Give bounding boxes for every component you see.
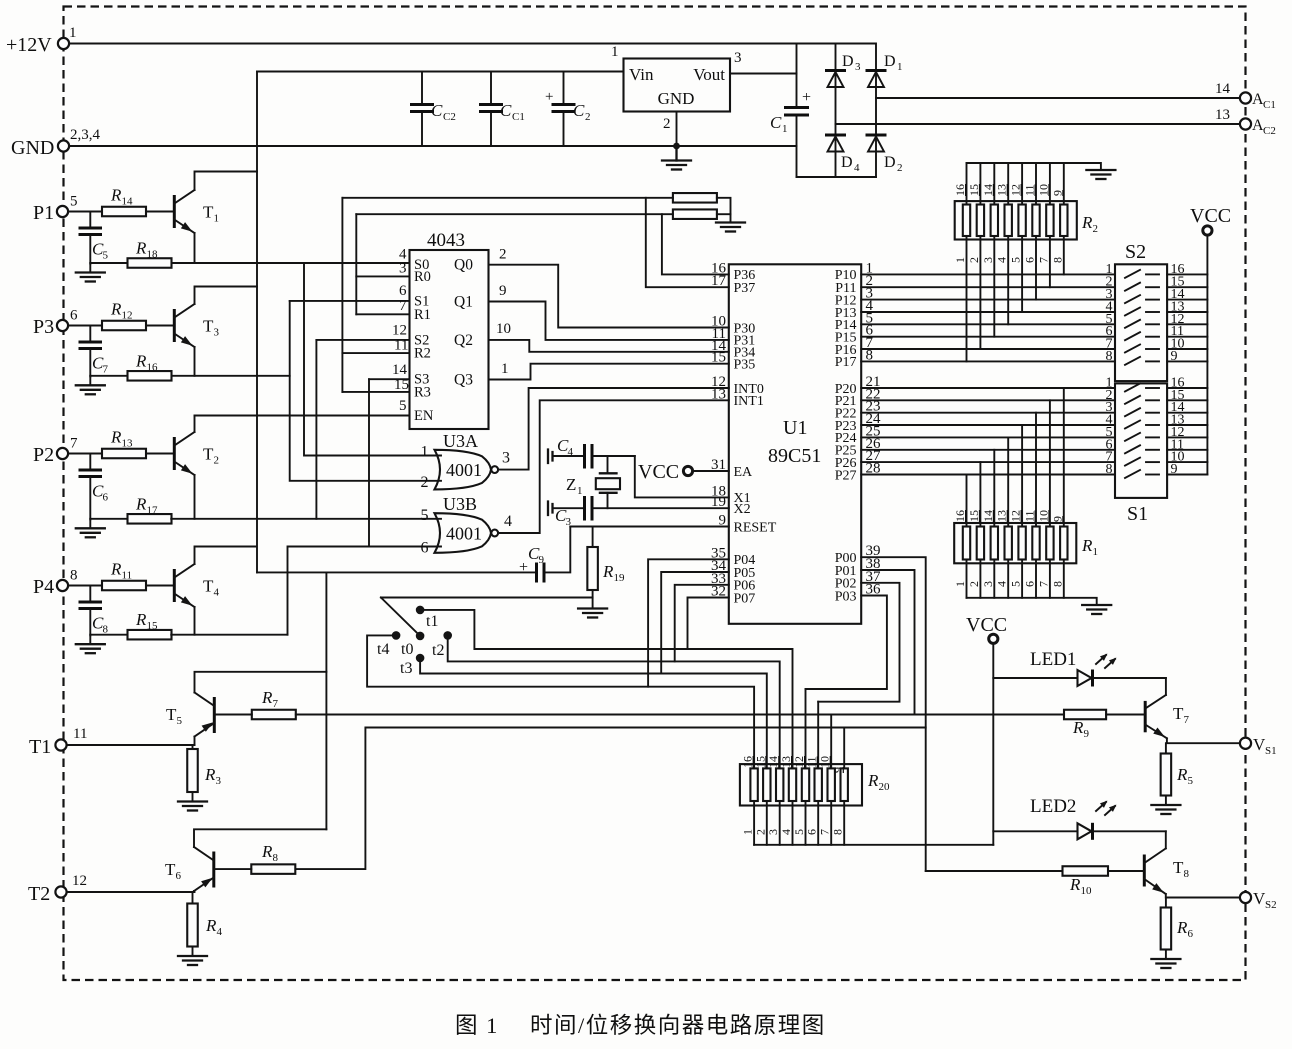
wire U1 port row [861,461,1115,463]
svg-text:6: 6 [1023,257,1037,263]
svg-text:R: R [110,560,122,579]
terminal P2 pin 7 [57,448,68,459]
wire U1 port row [861,323,1115,325]
capacitor Cc2 [410,72,456,147]
resistor R20 element 2 [763,768,770,801]
svg-text:8: 8 [1050,581,1064,587]
svg-text:8: 8 [1184,868,1190,880]
resistor R20 element 3 [776,768,783,801]
svg-text:R: R [135,239,147,258]
svg-text:2: 2 [663,116,671,132]
svg-text:8: 8 [103,624,109,636]
svg-text:Vin: Vin [629,65,654,84]
wire P3 input [68,325,102,327]
svg-text:D: D [842,53,854,70]
svg-text:4: 4 [568,446,574,458]
svg-text:T: T [165,860,176,879]
resistor R1 element 3 [991,527,998,560]
svg-text:EN: EN [414,408,434,424]
svg-text:t4: t4 [377,641,389,658]
svg-text:U3B: U3B [443,494,477,514]
svg-text:7: 7 [399,298,407,314]
wire C4 to X1 [635,456,729,497]
wire T7 collector [1165,678,1167,695]
resistor R2 element 4 [1005,205,1012,237]
svg-text:P4: P4 [33,576,54,598]
svg-text:R: R [1081,536,1093,555]
svg-text:R: R [602,562,614,581]
terminal Vs1 [1240,738,1251,749]
ground [89,263,91,272]
wire base line T5-T7 (long) [296,714,1064,716]
wire in6 line (P4 emitter) [171,634,287,636]
svg-text:9: 9 [539,554,545,566]
wire X2 line [594,507,729,509]
svg-text:R: R [867,771,879,790]
svg-text:11: 11 [122,570,133,582]
resistor R10 [1063,866,1109,876]
svg-text:5: 5 [1188,775,1194,787]
svg-text:3: 3 [216,775,222,787]
resistor R19 [592,527,594,548]
wire GND rail [69,145,797,147]
svg-text:3: 3 [981,581,995,587]
svg-text:5: 5 [1009,257,1023,263]
wire base [146,453,173,455]
resistor R20 element 4 [789,768,796,801]
svg-text:19: 19 [614,572,626,584]
resistor R20 element 5 [802,768,809,801]
svg-text:GND: GND [11,137,54,159]
resistor network R2 [955,201,1077,239]
wire U3B output to INT1 [498,400,729,533]
capacitor C6 [89,454,91,469]
wire P04 [648,559,729,686]
IC 4043 latch [410,250,489,429]
wire collector [195,547,257,565]
svg-text:10: 10 [818,756,832,768]
ground [1086,170,1115,179]
svg-text:R: R [110,428,122,447]
svg-text:15: 15 [967,184,981,196]
svg-text:6: 6 [805,829,819,835]
svg-text:4: 4 [217,926,223,938]
svg-text:4043: 4043 [427,230,465,251]
resistor R20 element 7 [828,768,835,801]
wire t2 to R20 r3 [448,635,780,768]
svg-text:1: 1 [953,257,967,263]
svg-text:16: 16 [147,361,159,373]
svg-text:2: 2 [585,111,591,123]
svg-text:R: R [135,494,147,513]
svg-text:8: 8 [1106,349,1113,364]
wire S3 node to U3B in6 [369,378,410,380]
svg-text:P35: P35 [734,358,756,373]
svg-text:14: 14 [981,510,995,522]
wire collector [195,172,258,191]
resistor R2 element 6 [1032,205,1039,237]
resistor R7 [252,710,296,720]
switch t0 wiper [381,598,420,636]
svg-text:Q0: Q0 [454,257,473,274]
svg-text:31: 31 [711,457,726,473]
svg-text:R0: R0 [414,269,431,285]
svg-text:6: 6 [399,283,407,299]
svg-text:16: 16 [953,184,967,196]
wire regulator pin2 to ground [676,112,678,147]
svg-text:VCC: VCC [1190,205,1231,227]
svg-text:C2: C2 [1263,125,1276,137]
diode D1 [866,53,903,87]
node t0 [416,632,425,641]
wire U1 port row [861,273,1115,275]
svg-text:P03: P03 [835,589,857,604]
wire to R16 [90,375,127,377]
svg-text:1: 1 [953,581,967,587]
svg-text:8: 8 [831,829,845,835]
resistor R15 [128,630,172,640]
LED LED1 [993,649,1166,687]
wire base [146,325,173,327]
svg-text:19: 19 [711,494,726,510]
svg-text:C: C [573,101,585,120]
wire T6 emitter [193,891,195,892]
transistor T3 [174,304,219,347]
svg-text:S1: S1 [1265,745,1277,757]
svg-text:15: 15 [753,756,767,768]
terminal +12V pin 1 [58,38,69,49]
svg-text:6: 6 [176,870,182,882]
svg-text:RESET: RESET [734,520,777,535]
terminal T1 pin 11 [55,739,66,750]
svg-text:5: 5 [1009,581,1023,587]
svg-text:1: 1 [897,61,903,73]
svg-text:13: 13 [779,756,793,768]
svg-text:15: 15 [394,377,409,393]
wire U1 port row [861,299,1115,301]
ground [592,590,594,608]
svg-text:9: 9 [831,767,845,773]
svg-text:3: 3 [981,257,995,263]
svg-text:T2: T2 [28,883,50,905]
wire P02 [818,583,899,702]
svg-text:t3: t3 [400,660,412,677]
wire Vout to C1 node [730,73,797,75]
svg-text:C1: C1 [1263,99,1276,111]
resistor R1 element 7 [1046,527,1053,560]
svg-text:U3A: U3A [443,431,478,451]
svg-text:12: 12 [122,310,133,322]
resistor R2 element 3 [991,205,998,237]
wire R0 R1 tie [356,275,409,277]
svg-text:R2: R2 [414,346,431,362]
svg-text:13: 13 [995,184,1009,196]
wire switch row to VCC bus [1167,399,1207,401]
wire T7 emitter to Vs1 [1167,738,1240,743]
svg-text:7: 7 [1036,581,1050,587]
wire switch row to VCC bus [1167,286,1207,288]
wire emitter [194,347,196,376]
svg-text:9: 9 [499,283,507,299]
wire U1 port row [861,436,1115,438]
wire to R17 [90,518,127,520]
wire bus1 (R2R3 pulldown) [342,197,673,199]
resistor network R20 [740,764,862,805]
wire switch row to VCC bus [1167,424,1207,426]
crystal Z1 [566,456,620,508]
transistor T6 PNP [165,847,214,891]
node t2 [443,631,452,640]
svg-text:t1: t1 [426,613,438,630]
wire Ac2 line [836,123,1241,125]
resistor R18 [128,258,172,268]
diode D4 [825,135,860,174]
svg-text:5: 5 [177,715,183,727]
svg-text:D: D [884,154,896,171]
svg-text:P17: P17 [835,355,857,370]
svg-text:13: 13 [995,510,1009,522]
svg-text:6: 6 [70,308,78,324]
capacitor C3 [548,496,592,528]
wire R10 to base [1108,870,1143,872]
svg-text:Q2: Q2 [454,332,473,349]
wire Q1 to P31 [489,302,729,340]
svg-text:5: 5 [103,250,109,262]
svg-text:15: 15 [147,620,159,632]
wire T1 input [67,744,195,746]
svg-text:12: 12 [72,873,87,889]
svg-text:3: 3 [502,450,510,467]
svg-text:11: 11 [1023,184,1037,196]
resistor R2 element 8 [1060,205,1067,237]
wire U1 port row [861,424,1115,426]
svg-text:T: T [166,705,177,724]
svg-text:12: 12 [1009,510,1023,522]
resistor R13 [102,449,146,459]
regulator U2 Vin/Vout/GND [611,44,742,132]
svg-text:Vout: Vout [693,65,725,84]
wire t1 to R20 r4 [420,610,792,769]
svg-text:4: 4 [779,829,793,835]
svg-text:20: 20 [879,781,891,793]
wire S2 node to U3B in5 [316,339,409,341]
svg-text:T: T [1173,858,1184,877]
svg-text:7: 7 [1036,257,1050,263]
svg-text:6: 6 [1188,928,1194,940]
resistor R20 element 8 [841,768,848,801]
wire collector [194,416,196,433]
svg-text:12: 12 [392,323,407,339]
svg-text:VCC: VCC [966,614,1007,636]
svg-text:P1: P1 [33,202,54,224]
wire R1 common [967,598,1097,604]
svg-text:P27: P27 [835,468,857,483]
wire P36 drop [662,214,729,274]
svg-text:+: + [545,89,553,105]
wire P03 drop to r5 [805,689,807,768]
svg-text:2,3,4: 2,3,4 [70,127,101,143]
svg-text:8: 8 [70,568,78,584]
svg-text:+: + [519,559,528,576]
node t1 [416,606,425,615]
ground [89,519,91,528]
wire P06 [675,585,729,662]
svg-text:1: 1 [1093,546,1099,558]
svg-text:15: 15 [967,510,981,522]
terminal P4 pin 8 [57,580,68,591]
wire rail to T5 T6 collectors [325,572,327,829]
svg-text:7: 7 [103,364,109,376]
wire t3 to R20 r2 [420,658,767,768]
resistor pulldown 2 [673,209,717,219]
wire U1 port row [861,286,1115,288]
svg-text:C1: C1 [512,111,525,123]
wire P03 [806,596,887,690]
resistor R2 element 7 [1046,205,1053,237]
node rail +V vertical [256,72,258,573]
transistor T7 NPN [1145,695,1189,738]
svg-text:10: 10 [496,321,511,337]
svg-text:VCC: VCC [638,461,679,483]
ground [192,947,194,956]
svg-text:10: 10 [1036,510,1050,522]
svg-text:S2: S2 [1265,899,1277,911]
resistor R1 element 6 [1032,527,1039,560]
wire Ac1 line [876,97,1240,99]
resistor R9 [1064,710,1106,720]
svg-text:R: R [135,351,147,370]
terminal GND pins 2,3,4 [58,140,69,151]
wire base [146,211,173,213]
resistor R11 [102,581,146,591]
wire P37 drop [646,198,729,287]
svg-text:14: 14 [122,196,134,208]
svg-text:R: R [110,186,122,205]
svg-text:14: 14 [1215,81,1231,97]
wire VCC bus vertical [1206,235,1208,474]
svg-text:9: 9 [719,513,727,529]
svg-text:Q1: Q1 [454,294,473,311]
svg-text:t2: t2 [432,642,444,659]
svg-text:R3: R3 [414,384,431,400]
svg-text:C: C [431,101,443,120]
wire switch row to VCC bus [1167,436,1207,438]
svg-text:U1: U1 [783,417,807,439]
svg-text:6: 6 [421,540,429,557]
wire T6 base [215,868,251,870]
svg-text:10: 10 [1036,184,1050,196]
svg-text:13: 13 [711,386,726,402]
svg-text:GND: GND [658,89,695,108]
svg-text:Q3: Q3 [454,372,473,389]
svg-text:X2: X2 [734,502,751,517]
svg-text:D: D [841,154,853,171]
wire switch row to VCC bus [1167,299,1207,301]
svg-text:C2: C2 [443,111,456,123]
resistor R16 [128,371,172,381]
svg-text:1: 1 [501,361,509,377]
wire P01 to base line [861,570,914,715]
svg-text:4: 4 [995,257,1009,263]
svg-text:17: 17 [147,504,159,516]
svg-text:T1: T1 [29,736,51,758]
resistor R1 element 8 [1060,527,1067,560]
svg-text:2: 2 [967,257,981,263]
resistor R20 element 6 [815,768,822,801]
svg-text:R: R [204,765,216,784]
wire VCC vertical to R20 common [992,644,994,845]
wire T2 input [67,891,195,893]
wire switch row to VCC bus [1167,336,1207,338]
svg-text:EA: EA [734,465,754,480]
svg-text:7: 7 [818,829,832,835]
op-amp U3B NOR gate 4001 [435,513,492,553]
wire to R15 [90,634,127,636]
svg-text:T: T [203,445,214,464]
resistor R14 [102,207,146,217]
switch S1 [1106,376,1185,526]
svg-text:17: 17 [711,273,727,289]
capacitor C9 polarized [519,544,545,583]
resistor R1 element 5 [1018,527,1025,560]
terminal T2 pin 12 [55,886,66,897]
svg-text:2: 2 [897,162,903,174]
svg-text:LED1: LED1 [1030,649,1076,670]
terminal Ac2 pin 13 [1240,118,1251,129]
wire switch row to VCC bus [1167,360,1207,362]
svg-text:4: 4 [995,581,1009,587]
wire T8 collector [1165,831,1167,848]
wire U1 port row [861,474,1115,476]
ground [89,376,91,385]
wire switch row to VCC bus [1167,273,1207,275]
ground [89,635,91,644]
svg-text:P37: P37 [734,281,756,296]
node t3 [416,654,425,663]
svg-text:T: T [203,203,214,222]
svg-text:S2: S2 [1125,241,1146,263]
svg-text:R: R [261,842,273,861]
svg-text:9: 9 [1050,190,1064,196]
svg-text:3: 3 [855,61,861,73]
wire in5 line (P2 emitter) [171,518,441,520]
svg-text:3: 3 [734,50,742,66]
ground [716,223,745,232]
wire T5 collector [195,672,327,693]
resistor R2 element 5 [1018,205,1025,237]
wire switch row to VCC bus [1167,387,1207,389]
wire T6 collector [194,829,326,847]
svg-text:13: 13 [122,438,134,450]
op-amp U3A NOR gate 4001 [435,450,492,490]
resistor R4 [192,892,194,904]
svg-text:2: 2 [1093,223,1099,235]
wire Q3 to P35 [489,364,729,380]
wire P2 input [68,453,102,455]
diode D2 [866,135,903,174]
transistor T8 NPN [1144,848,1189,894]
svg-text:R: R [1072,718,1084,737]
terminal P1 pin 5 [57,206,68,217]
wire base line T6-T8 [296,728,925,870]
svg-text:C: C [770,113,782,132]
svg-text:13: 13 [1215,107,1230,123]
svg-text:4001: 4001 [446,524,482,544]
node junction dot regulator gnd [673,143,680,150]
resistor R1 element 1 [963,527,970,560]
svg-text:R: R [1176,918,1188,937]
svg-text:R1: R1 [414,307,431,323]
